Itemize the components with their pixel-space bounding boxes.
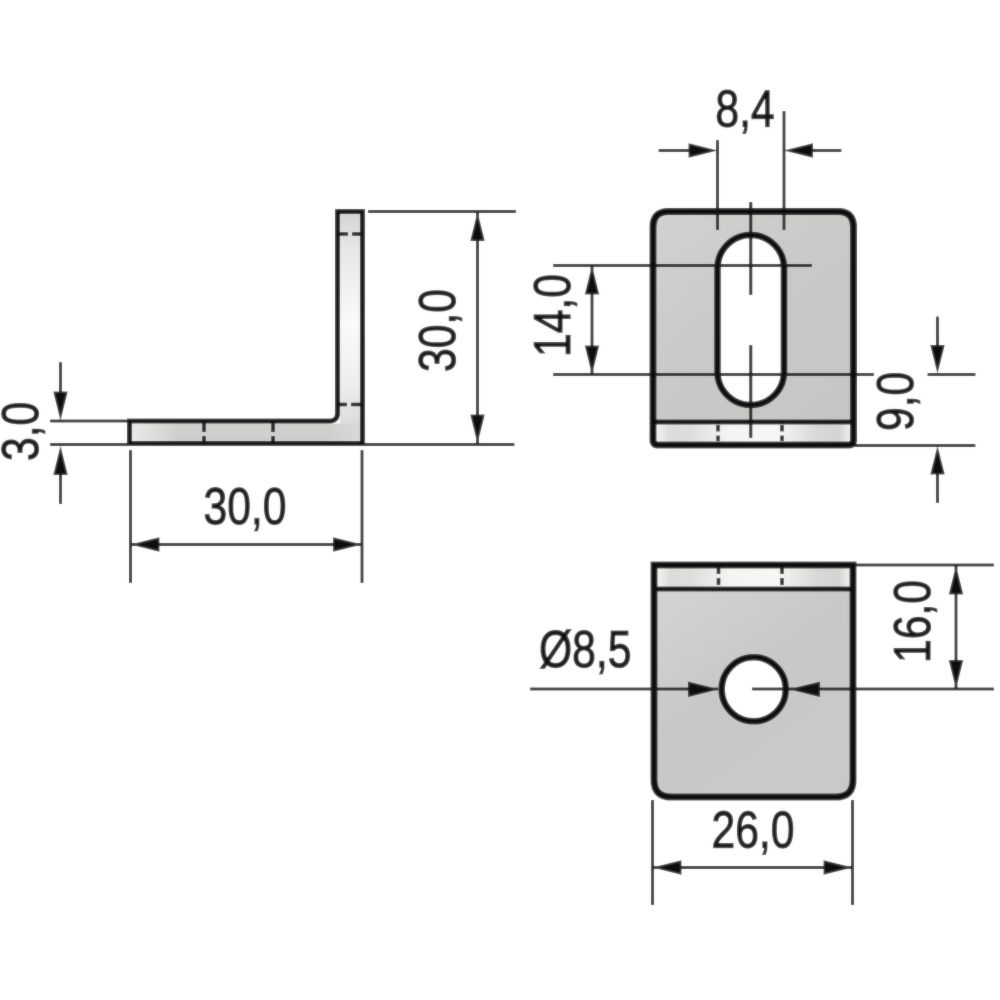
dimension 30,0 vertical top arrowhead <box>470 212 484 241</box>
svg-text:14,0: 14,0 <box>524 274 582 357</box>
bend strip highlight <box>653 422 854 445</box>
dimension 30,0 bottom right arrowhead <box>333 537 362 551</box>
dimension 26,0 left arrowhead <box>653 860 682 874</box>
svg-text:3,0: 3,0 <box>0 402 50 461</box>
dimension 30,0 bottom line <box>131 543 363 546</box>
dimension 30,0 vertical line <box>476 212 479 444</box>
bend line <box>650 420 857 425</box>
dimension 26,0 right arrowhead <box>824 860 853 874</box>
bend tick 1 (horizontal leg) <box>202 424 206 433</box>
dimension 16,0 line <box>955 566 958 690</box>
extension line left (30,0 bottom) <box>129 450 132 583</box>
lower slot arc center line (14,0 / 9,0 extension) <box>553 373 874 376</box>
L profile outline <box>130 212 363 444</box>
dimension 3,0 lower arrow line <box>59 475 62 504</box>
svg-text:8,4: 8,4 <box>715 81 774 139</box>
dimension 14,0 top arrowhead <box>585 266 599 295</box>
extension line slot right (8,4) <box>783 111 786 230</box>
plate outline <box>653 212 854 446</box>
extension line bottom (shared base line y=444.5) <box>50 443 515 446</box>
plate outline <box>654 565 853 797</box>
strip tick 2 <box>780 567 784 574</box>
hole right arrowhead <box>789 682 820 697</box>
dimension 3,0 lower arrowhead <box>53 446 67 475</box>
dimension 3,0 upper arrow line <box>59 362 62 392</box>
dimension 9,0 lower arrow line <box>936 475 939 504</box>
extension line left (26,0) <box>651 800 654 905</box>
hole center line left segment <box>530 688 718 691</box>
slot (8.4 x 22.4) <box>718 235 785 405</box>
bend tick lower (vertical leg) <box>338 403 347 407</box>
dimension 14,0 bottom arrowhead <box>585 346 599 375</box>
dimension 26,0 line <box>653 866 853 869</box>
dimension 16,0 top arrowhead <box>949 566 963 595</box>
dimension 3,0 upper arrowhead <box>53 392 67 421</box>
plate fill <box>653 212 854 446</box>
dimension 30,0 bottom left arrowhead <box>131 537 160 551</box>
dimension 8,4 left arrow line <box>659 149 691 152</box>
extension line slot left (8,4) <box>716 140 719 230</box>
extension line top edge (16,0) <box>856 564 994 567</box>
hole center line right segment (16,0 bottom extension) <box>752 688 994 691</box>
dimension 9,0 upper arrow line <box>936 317 939 347</box>
svg-text:Ø8,5: Ø8,5 <box>539 621 631 679</box>
dimension 16,0 bottom arrowhead <box>949 660 963 689</box>
dimension 9,0 lower arrowhead <box>930 446 944 475</box>
bottom edge extension right (9,0) <box>854 444 976 447</box>
plate fill <box>654 565 853 797</box>
svg-text:26,0: 26,0 <box>712 802 795 860</box>
svg-text:16,0: 16,0 <box>884 580 942 663</box>
svg-text:9,0: 9,0 <box>867 372 925 431</box>
bend tick 2 (horizontal leg) <box>271 424 275 433</box>
dimension 14,0 line <box>591 266 594 375</box>
bend tick upper (vertical leg) <box>339 232 348 236</box>
slot center line vertical lower <box>749 345 752 438</box>
extension line top of vertical leg (30,0) <box>368 210 516 213</box>
bend line <box>651 587 856 592</box>
bend strip highlight <box>654 565 853 589</box>
extension line right (30,0 bottom) <box>361 450 364 583</box>
strip tick 1 <box>716 425 720 432</box>
extension line right (26,0) <box>851 800 854 905</box>
dimension 8,4 left arrowhead <box>689 143 718 157</box>
svg-text:30,0: 30,0 <box>409 289 467 372</box>
strip tick 1 <box>717 567 721 574</box>
L profile fill <box>130 212 363 444</box>
hole (diameter 8,5) <box>722 657 786 721</box>
extension line top of horizontal leg (3,0) <box>50 420 128 423</box>
hole left arrowhead <box>688 682 719 697</box>
dimension 8,4 right arrowhead <box>784 143 813 157</box>
upper slot arc center line (14,0 top extension) <box>553 264 812 267</box>
slot center line vertical upper <box>749 202 752 295</box>
dimension 30,0 vertical bottom arrowhead <box>470 415 484 444</box>
dimension 9,0 upper arrowhead <box>930 345 944 374</box>
dimension 8,4 right arrow line <box>812 149 842 152</box>
svg-text:30,0: 30,0 <box>204 478 287 536</box>
strip tick 2 <box>780 425 784 432</box>
